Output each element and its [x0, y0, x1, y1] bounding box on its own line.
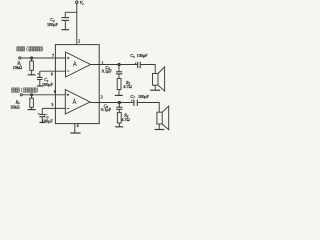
ground under speaker 1	[150, 89, 160, 91]
op-amp A1	[66, 52, 91, 77]
resistor R1	[30, 59, 34, 75]
ground under R1	[28, 74, 36, 76]
wire output 1	[91, 64, 138, 66]
label input left channel (simulated CJK 输入（左声道）)	[17, 47, 43, 52]
capacitor C5 (series)	[135, 62, 141, 68]
svg-text:5: 5	[51, 102, 53, 107]
resistor R2	[30, 96, 34, 110]
svg-text:10kΩ: 10kΩ	[10, 104, 19, 109]
wire pin 5 stub	[42, 107, 65, 109]
op-amp A2	[65, 90, 90, 115]
input terminal (left)	[19, 57, 21, 59]
svg-text:7: 7	[52, 53, 54, 58]
ground under C1	[37, 85, 43, 87]
svg-text:4.7Ω: 4.7Ω	[123, 84, 131, 89]
svg-text:C7: C7	[130, 94, 135, 100]
capacitor C6	[116, 65, 122, 79]
svg-text:Vc: Vc	[80, 0, 85, 6]
ground under speaker 2	[155, 129, 165, 131]
wire output 3	[90, 102, 134, 104]
svg-text:0.1μF: 0.1μF	[101, 107, 111, 112]
wire Vcc to pin2	[76, 3, 78, 44]
speaker BL1	[153, 67, 165, 91]
ground under C3	[40, 122, 46, 124]
wire pin 4	[74, 124, 76, 133]
IC U1 outline	[55, 45, 99, 124]
resistor R6	[117, 112, 121, 126]
svg-text:100μF: 100μF	[42, 82, 54, 87]
svg-text:C5: C5	[130, 53, 135, 59]
svg-text:100μF: 100μF	[138, 94, 150, 99]
node R1 junction	[31, 57, 33, 59]
capacitor C3	[38, 108, 45, 122]
svg-text:100μF: 100μF	[47, 22, 59, 27]
node R2 junction	[31, 94, 33, 96]
ground under R6	[115, 126, 123, 128]
wire input R to pin 6	[22, 94, 65, 96]
label A2	[73, 99, 76, 104]
svg-text:6: 6	[54, 89, 56, 94]
capacitor C1	[37, 71, 43, 86]
resistor R5	[117, 79, 121, 96]
svg-text:8: 8	[51, 72, 53, 77]
node Zobel1 junction	[118, 63, 120, 65]
svg-text:4: 4	[77, 123, 79, 128]
wire C5 to speaker 1	[140, 65, 155, 74]
svg-text:10kΩ: 10kΩ	[13, 65, 22, 70]
wire pin 8 stub	[40, 70, 66, 72]
speaker BL2	[157, 106, 169, 130]
label input right channel (simulated CJK 输入（右声道）)	[12, 88, 38, 93]
wire input L to pin 7	[21, 57, 66, 59]
svg-text:0.1μF: 0.1μF	[102, 69, 112, 74]
ground under R2	[28, 109, 36, 111]
wire C2 stub	[65, 11, 77, 13]
capacitor C2	[62, 12, 70, 29]
wire C7 to speaker 2	[137, 103, 159, 113]
svg-text:2: 2	[78, 39, 80, 44]
ground under R5	[115, 94, 123, 96]
node Zobel2 junction	[118, 101, 120, 103]
svg-text:100μF: 100μF	[137, 53, 149, 58]
input terminal (right)	[20, 94, 22, 96]
ground pin 4	[70, 132, 80, 134]
svg-text:3: 3	[101, 94, 103, 99]
svg-text:100μF: 100μF	[42, 118, 54, 123]
Vcc terminal	[76, 1, 78, 3]
ground under C2	[62, 29, 70, 31]
capacitor C7 (series)	[131, 100, 137, 106]
svg-text:4.7Ω: 4.7Ω	[121, 117, 129, 122]
capacitor C8	[116, 103, 122, 112]
label A1	[73, 62, 76, 67]
svg-text:1: 1	[101, 60, 103, 65]
